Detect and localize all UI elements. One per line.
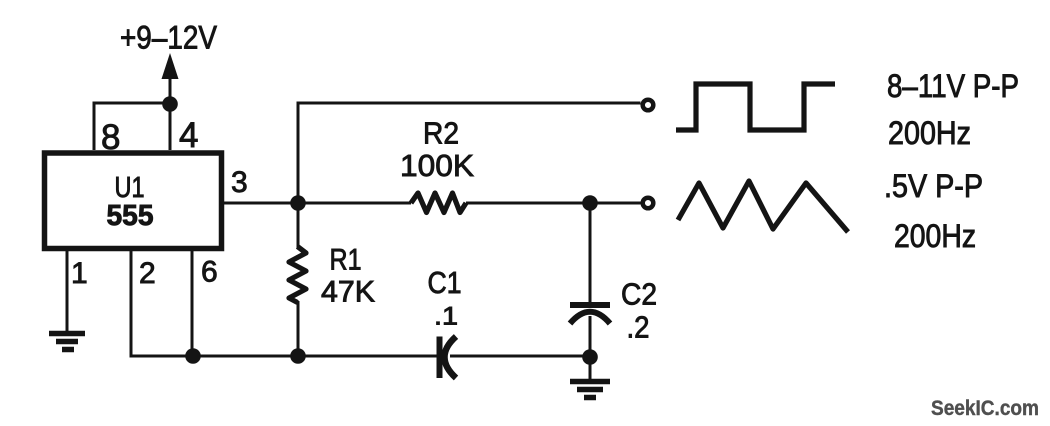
R1 label	[330, 244, 362, 277]
svg-text:C2: C2	[621, 277, 657, 312]
junction dot at supply node	[162, 96, 178, 112]
svg-text:6: 6	[201, 256, 218, 289]
R2 label	[423, 116, 459, 151]
junction dot at pin 3 node	[290, 195, 306, 211]
svg-text:R1: R1	[330, 244, 362, 277]
pin 6 number label	[201, 256, 218, 289]
.1 value label	[434, 303, 458, 331]
pin 4 number label	[179, 116, 198, 155]
wire C2 bottom to bus node	[589, 316, 592, 357]
C1 label	[428, 265, 462, 300]
pin 8 number label	[101, 118, 120, 157]
wire C1 to C2 node	[450, 355, 590, 358]
resistor R1 47K	[289, 247, 306, 303]
resistor R2 100K	[411, 193, 466, 213]
junction dot R1 at bottom bus	[290, 348, 306, 364]
pin 3 number label	[231, 166, 248, 199]
pin 2 number label	[139, 257, 156, 290]
svg-text:555: 555	[107, 200, 154, 232]
100K value label	[400, 148, 474, 183]
wire R1 bottom to bus	[297, 301, 300, 356]
svg-text:8: 8	[101, 118, 120, 157]
+9-12V supply label	[120, 20, 218, 56]
wire pin 4 top	[169, 103, 172, 150]
wire pin 3 output from IC to node	[222, 202, 298, 205]
svg-text:200Hz: 200Hz	[888, 115, 971, 151]
wire from pin3 node to R2	[298, 202, 411, 205]
capacitor C2 .2	[570, 305, 610, 324]
capacitor C1 .1	[440, 337, 457, 379]
C2 label	[621, 277, 657, 312]
wire bottom bus pin6 node to C1	[193, 355, 438, 358]
square waveform icon	[676, 84, 835, 130]
47K value label	[321, 276, 375, 309]
ground symbol C2	[570, 382, 610, 398]
wire C2 node to ground	[589, 357, 592, 379]
triangle wave output terminal	[643, 198, 654, 209]
svg-text:R2: R2	[423, 116, 459, 151]
svg-text:100K: 100K	[400, 148, 474, 183]
junction dot pin6 at bus	[185, 348, 201, 364]
svg-text:3: 3	[231, 166, 248, 199]
200Hz label (square)	[888, 115, 971, 151]
svg-text:4: 4	[179, 116, 198, 155]
555 value label	[107, 200, 154, 232]
svg-text:C1: C1	[428, 265, 462, 300]
power supply arrow +9-12V	[162, 53, 179, 104]
wire pin 6 down	[191, 251, 194, 356]
ground symbol pin 1	[49, 334, 85, 350]
junction dot at triangle output node	[582, 195, 598, 211]
U1 label	[115, 172, 145, 204]
200Hz label (triangle)	[894, 218, 976, 254]
wire pin3 node down to R1	[297, 203, 300, 248]
svg-text:2: 2	[139, 257, 156, 290]
SeekIC.com watermark	[931, 397, 1039, 420]
op-amp U1 555 IC body	[45, 153, 222, 249]
wire pin 8 top (vertical + horizontal to junction)	[94, 103, 170, 150]
wire from node to triangle terminal	[590, 202, 641, 205]
svg-text:200Hz: 200Hz	[894, 218, 976, 254]
wire C2 node down from triangle node	[589, 203, 592, 304]
8-11V P-P output label	[887, 68, 1019, 104]
wire pin 1 down	[66, 251, 69, 331]
svg-text:47K: 47K	[321, 276, 375, 309]
.2 value label	[627, 310, 650, 345]
svg-text:+9–12V: +9–12V	[120, 20, 218, 56]
wire pin 2 down to bus	[131, 251, 193, 356]
svg-text:.2: .2	[627, 310, 650, 345]
triangle waveform icon	[678, 181, 848, 232]
.5V P-P output label	[884, 168, 983, 204]
junction dot C2 at bus	[582, 349, 598, 365]
svg-text:8–11V P-P: 8–11V P-P	[887, 68, 1019, 104]
svg-text:.1: .1	[434, 303, 458, 331]
pin 1 number label	[71, 257, 88, 290]
square wave output terminal	[643, 100, 654, 111]
svg-text:.5V P-P: .5V P-P	[884, 168, 983, 204]
wire from pin3 node up to square-wave rail	[298, 103, 641, 203]
svg-text:SeekIC.com: SeekIC.com	[931, 397, 1039, 420]
svg-text:1: 1	[71, 257, 88, 290]
wire from R2 to C2 node	[466, 202, 590, 205]
